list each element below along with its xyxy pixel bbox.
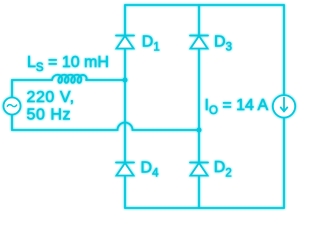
schematic glow layer: [4, 5, 296, 208]
schematic sharp layer: [4, 5, 296, 208]
